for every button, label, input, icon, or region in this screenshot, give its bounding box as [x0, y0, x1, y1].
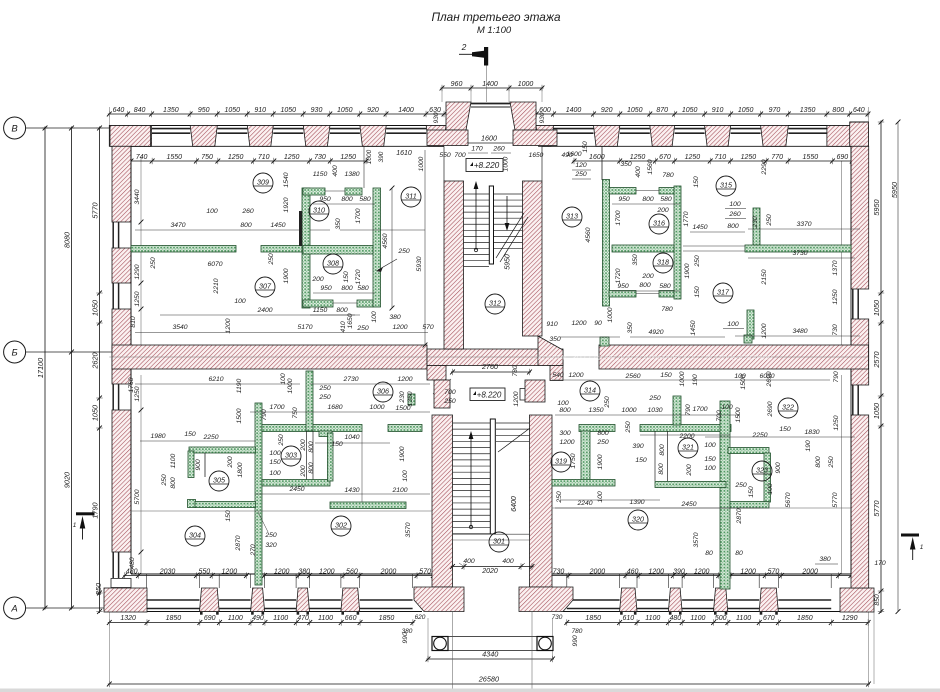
- svg-text:1050: 1050: [627, 107, 643, 114]
- middle wall axis line: [109, 356, 868, 358]
- right wall hatch seg 3: [851, 415, 869, 588]
- svg-text:2450: 2450: [680, 501, 696, 508]
- svg-text:2870: 2870: [736, 508, 743, 524]
- svg-text:780: 780: [512, 365, 519, 376]
- bottom window W9 glazing: [728, 599, 759, 601]
- svg-text:1980: 1980: [150, 433, 165, 440]
- right dim chain: [880, 121, 882, 614]
- svg-text:КОМПАС-3D LT (c) НЕ ДЛЯ КОММЕР: КОМПАС-3D LT (c) НЕ ДЛЯ КОММЕРЧЕСКОГО ИС…: [538, 353, 774, 362]
- left window dim chain: [99, 127, 101, 614]
- partition LR horizontal main b: [640, 425, 731, 432]
- svg-text:1900: 1900: [597, 454, 604, 469]
- svg-text:300: 300: [559, 430, 571, 437]
- svg-text:1680: 1680: [327, 404, 342, 411]
- top wall pier 4: [303, 126, 330, 147]
- stub green UR low: [747, 310, 754, 339]
- svg-text:1030: 1030: [647, 407, 662, 414]
- svg-text:2250: 2250: [202, 434, 218, 441]
- right wall hatch seg 1: [851, 146, 869, 289]
- top window W7 glazing: [620, 128, 650, 130]
- bottom wall pier 4: [341, 588, 360, 612]
- svg-text:1250: 1250: [630, 154, 646, 161]
- svg-text:1700: 1700: [615, 210, 622, 225]
- partition UR mid a: [612, 245, 674, 252]
- door label 700 right: [520, 389, 542, 401]
- svg-text:850: 850: [874, 594, 881, 606]
- svg-text:780: 780: [661, 306, 673, 313]
- svg-text:800: 800: [639, 282, 651, 289]
- svg-text:540: 540: [552, 372, 564, 379]
- left inner chain line upper: [140, 157, 142, 345]
- svg-text:309: 309: [257, 178, 269, 187]
- svg-text:250: 250: [648, 395, 661, 402]
- bottom inner dim row right: [547, 575, 721, 577]
- svg-text:80: 80: [705, 550, 713, 557]
- top window W6 glazing: [554, 128, 594, 130]
- svg-text:150: 150: [225, 510, 232, 522]
- LL small green stub: [408, 394, 415, 405]
- porch column stems: [452, 612, 454, 690]
- svg-text:А: А: [10, 603, 17, 614]
- svg-text:4560: 4560: [585, 227, 592, 242]
- stair door jamb right: [550, 366, 563, 381]
- svg-text:570: 570: [422, 324, 434, 331]
- svg-text:900: 900: [775, 462, 782, 474]
- svg-text:1560: 1560: [647, 159, 654, 174]
- svg-text:100: 100: [557, 400, 569, 407]
- partition LR room321 bottom: [655, 482, 726, 488]
- svg-text:8080: 8080: [63, 232, 72, 248]
- partition LL room303 bottom: [262, 480, 330, 487]
- svg-text:80: 80: [735, 550, 743, 557]
- svg-text:770: 770: [771, 154, 783, 161]
- svg-text:690: 690: [836, 154, 848, 161]
- svg-text:320: 320: [632, 515, 644, 524]
- svg-text:100: 100: [269, 470, 281, 477]
- svg-text:1040: 1040: [344, 434, 359, 441]
- upper stair up-arrow: [474, 248, 477, 251]
- svg-text:1200: 1200: [225, 318, 232, 333]
- partition UR vertical right: [674, 186, 681, 299]
- svg-text:1830: 1830: [804, 429, 819, 436]
- svg-text:5770: 5770: [872, 500, 881, 516]
- bottom wall outer face line: [109, 611, 422, 613]
- left wall hatch seg 4: [112, 410, 131, 552]
- top wall pier 8: [594, 126, 620, 147]
- svg-text:800: 800: [559, 407, 571, 414]
- svg-text:308: 308: [327, 259, 339, 268]
- svg-text:1000: 1000: [503, 156, 510, 171]
- room tag 308: [323, 254, 343, 274]
- lower stair cut lines: [498, 428, 530, 452]
- svg-text:2450: 2450: [288, 486, 304, 493]
- top window W9 glazing: [731, 128, 761, 130]
- svg-text:100: 100: [704, 465, 716, 472]
- svg-text:350: 350: [632, 254, 639, 266]
- svg-text:100: 100: [727, 321, 739, 328]
- UR leader underlines: [725, 208, 746, 210]
- svg-text:1700: 1700: [692, 406, 707, 413]
- bottom inner dim row left2: [263, 575, 435, 577]
- svg-text:2760: 2760: [481, 362, 498, 371]
- svg-text:1500: 1500: [236, 408, 243, 423]
- bottom outer dim row left: [108, 622, 415, 624]
- bottom wall sill marks: [200, 612, 203, 615]
- dim 17100 overall left: [44, 127, 46, 610]
- lower landing line: [453, 533, 530, 535]
- svg-text:790: 790: [685, 404, 692, 416]
- top inner dim row left: [130, 160, 368, 162]
- svg-text:1900: 1900: [283, 268, 290, 283]
- svg-text:311: 311: [405, 192, 416, 201]
- svg-text:306: 306: [377, 387, 389, 396]
- svg-text:90: 90: [594, 320, 602, 327]
- upper stairwell throat lines: [443, 146, 445, 181]
- svg-text:800: 800: [341, 285, 353, 292]
- LR dim lines: [552, 379, 830, 381]
- svg-text:250: 250: [596, 439, 609, 446]
- left window W1 glazing: [112, 222, 114, 248]
- svg-text:840: 840: [134, 107, 146, 114]
- svg-text:380: 380: [389, 314, 401, 321]
- partition UL horizontal a: [131, 246, 236, 253]
- room tag 307: [255, 277, 275, 297]
- svg-text:2290: 2290: [761, 159, 768, 175]
- svg-text:750: 750: [201, 154, 213, 161]
- svg-text:260: 260: [492, 146, 505, 153]
- svg-text:302: 302: [335, 521, 347, 530]
- svg-text:1720: 1720: [615, 268, 622, 283]
- svg-text:305: 305: [213, 476, 226, 485]
- room tag 301: [489, 532, 509, 552]
- svg-text:800: 800: [597, 430, 609, 437]
- stair landing dim 2760: [451, 371, 531, 373]
- svg-text:800: 800: [642, 196, 654, 203]
- svg-text:910: 910: [712, 107, 724, 114]
- left wall hatch seg 2: [112, 248, 131, 283]
- partition LL step: [319, 431, 332, 437]
- svg-text:1250: 1250: [741, 154, 757, 161]
- partition UL horizontal b: [261, 246, 305, 253]
- top window W1 glazing: [152, 128, 191, 130]
- LL dim lines: [135, 383, 300, 385]
- upper stair arrow right: [506, 196, 508, 228]
- bottom wall inner face line: [131, 573, 432, 575]
- room321 side lines: [654, 431, 656, 481]
- svg-text:100: 100: [269, 450, 281, 457]
- upper stair stringer: [489, 186, 493, 264]
- svg-text:950: 950: [320, 285, 332, 292]
- svg-text:9020: 9020: [63, 472, 72, 488]
- svg-text:410: 410: [340, 321, 347, 333]
- porch column right: [537, 637, 553, 651]
- svg-text:6070: 6070: [207, 261, 222, 268]
- svg-text:260: 260: [241, 208, 254, 215]
- partition UL vertical right: [373, 188, 381, 307]
- svg-text:1350: 1350: [800, 107, 816, 114]
- svg-text:1850: 1850: [166, 615, 182, 622]
- svg-text:318: 318: [657, 258, 669, 267]
- bottom wall pier 3: [296, 588, 309, 612]
- svg-text:1000: 1000: [369, 404, 384, 411]
- svg-text:1800: 1800: [237, 462, 244, 477]
- svg-text:1000: 1000: [366, 149, 373, 164]
- svg-text:1600: 1600: [566, 151, 581, 158]
- stub wall UL: [299, 211, 302, 246]
- svg-text:1050: 1050: [682, 107, 698, 114]
- svg-text:17100: 17100: [36, 358, 45, 378]
- svg-text:1200: 1200: [568, 372, 583, 379]
- room303 left lines: [306, 431, 308, 480]
- svg-text:Б: Б: [12, 347, 18, 358]
- svg-text:1250: 1250: [134, 386, 141, 401]
- svg-text:1050: 1050: [280, 107, 296, 114]
- left window W3 glazing: [112, 384, 114, 410]
- room tag 314: [580, 381, 600, 401]
- UR dim lines: [612, 203, 680, 205]
- svg-text:800: 800: [336, 307, 348, 314]
- bottom window W8 glazing: [682, 599, 713, 601]
- top wall pier 10: [705, 126, 731, 147]
- svg-text:250: 250: [734, 482, 747, 489]
- bottom window W2 glazing: [219, 599, 250, 601]
- LL interior line x362 low: [361, 431, 363, 502]
- UL dim line 4560: [391, 188, 393, 308]
- svg-text:730: 730: [314, 154, 326, 161]
- partition UR top b: [659, 188, 674, 195]
- svg-text:250: 250: [625, 421, 632, 434]
- top window W10 glazing: [788, 128, 827, 130]
- stair stub wall upper-right: [525, 380, 545, 402]
- svg-text:1770: 1770: [683, 211, 690, 226]
- room305 inner stub: [204, 453, 206, 477]
- svg-text:960: 960: [451, 81, 463, 88]
- svg-text:1250: 1250: [284, 154, 300, 161]
- svg-text:1700: 1700: [269, 404, 284, 411]
- svg-text:1050: 1050: [91, 405, 100, 421]
- svg-text:150: 150: [779, 426, 791, 433]
- partition UR vertical left: [603, 180, 610, 307]
- svg-text:640: 640: [853, 107, 865, 114]
- top wall inner face line: [131, 145, 444, 147]
- svg-text:2250: 2250: [751, 432, 767, 439]
- svg-text:950: 950: [319, 196, 331, 203]
- svg-text:950: 950: [198, 107, 210, 114]
- stair door jamb left: [427, 366, 446, 381]
- svg-text:1920: 1920: [283, 197, 290, 212]
- svg-text:1250: 1250: [833, 415, 840, 430]
- room tag 305: [209, 471, 229, 491]
- svg-text:400: 400: [463, 558, 475, 565]
- vestibule wall left: [427, 130, 468, 146]
- top wall pier 12: [827, 126, 869, 147]
- LR interior line y508: [552, 507, 851, 509]
- svg-text:1750: 1750: [570, 453, 577, 468]
- svg-text:315: 315: [720, 181, 733, 190]
- svg-text:1100: 1100: [273, 615, 288, 622]
- svg-text:2240: 2240: [576, 500, 592, 507]
- svg-text:480: 480: [669, 615, 681, 622]
- svg-text:1650: 1650: [347, 313, 354, 328]
- svg-text:1000: 1000: [518, 81, 534, 88]
- svg-text:120: 120: [575, 162, 587, 169]
- svg-text:800: 800: [815, 456, 822, 468]
- partition LL horizontal a: [262, 425, 362, 432]
- bottom window W1 glazing: [147, 599, 200, 601]
- svg-text:150: 150: [269, 459, 281, 466]
- partition UL top b: [345, 188, 362, 195]
- svg-text:4920: 4920: [648, 329, 663, 336]
- svg-text:200: 200: [686, 464, 693, 477]
- svg-text:1050: 1050: [224, 107, 240, 114]
- section marker 2 top: [486, 66, 488, 103]
- svg-text:303: 303: [285, 451, 297, 460]
- svg-text:3480: 3480: [792, 328, 807, 335]
- svg-text:730: 730: [832, 324, 839, 336]
- svg-text:250: 250: [556, 491, 563, 504]
- lower stair treads: [453, 422, 491, 424]
- svg-text:2: 2: [461, 42, 467, 52]
- svg-text:250: 250: [318, 385, 331, 392]
- svg-text:319: 319: [555, 457, 567, 466]
- room tag 317: [713, 283, 733, 303]
- svg-text:250: 250: [766, 214, 773, 227]
- bottom-right corner block: [840, 588, 874, 612]
- svg-text:План третьего этажа: План третьего этажа: [431, 10, 561, 24]
- room tag 309: [253, 173, 273, 193]
- top window W5 glazing: [386, 128, 426, 130]
- room305 bottom partition: [195, 502, 256, 508]
- svg-text:190: 190: [805, 440, 812, 452]
- room305 bottom corner: [188, 500, 196, 508]
- svg-text:2620: 2620: [91, 352, 100, 369]
- svg-text:1850: 1850: [797, 615, 813, 622]
- svg-text:321: 321: [682, 443, 694, 452]
- room tag 315: [716, 176, 736, 196]
- svg-text:1850: 1850: [585, 615, 601, 622]
- svg-text:1400: 1400: [482, 81, 498, 88]
- svg-text:930: 930: [433, 112, 440, 123]
- svg-text:4560: 4560: [382, 233, 389, 248]
- porch width dim 4340: [427, 658, 555, 660]
- svg-text:250: 250: [694, 255, 701, 268]
- left inner chain line lower: [140, 375, 142, 574]
- svg-text:1050: 1050: [738, 107, 754, 114]
- top-right corner block: [850, 122, 869, 146]
- upper stairwell wall left: [444, 181, 464, 349]
- bottom window W4 glazing: [310, 599, 341, 601]
- lower stair up-arrow: [469, 525, 472, 528]
- door swing line: [433, 379, 451, 394]
- svg-text:1100: 1100: [645, 615, 660, 622]
- svg-text:400: 400: [332, 165, 339, 177]
- bottom outer dim row right: [565, 622, 869, 624]
- upper stairwell wall right: [523, 181, 543, 336]
- right window W2 glazing: [852, 385, 854, 415]
- top wall pier 6: [426, 126, 446, 147]
- partition LR vert up stub: [673, 396, 681, 425]
- room tag 321: [678, 438, 698, 458]
- svg-text:1100: 1100: [228, 615, 243, 622]
- LL interior line y511: [131, 510, 432, 512]
- room tag 304: [185, 526, 205, 546]
- svg-text:100: 100: [206, 208, 218, 215]
- svg-text:150: 150: [694, 286, 701, 298]
- svg-text:350: 350: [335, 218, 342, 230]
- svg-text:950: 950: [618, 196, 630, 203]
- svg-text:950: 950: [617, 283, 629, 290]
- svg-text:970: 970: [769, 107, 781, 114]
- svg-text:500: 500: [715, 615, 727, 622]
- svg-text:6400: 6400: [511, 496, 518, 512]
- svg-text:1290: 1290: [842, 615, 858, 622]
- svg-text:900: 900: [195, 459, 202, 471]
- porch column left: [432, 637, 448, 651]
- svg-text:1100: 1100: [736, 615, 751, 622]
- partition LL horizontal low: [330, 502, 406, 509]
- svg-text:800: 800: [658, 463, 665, 475]
- svg-text:780: 780: [572, 628, 583, 635]
- partition UL mid: [303, 246, 373, 255]
- svg-text:2870: 2870: [235, 535, 242, 551]
- svg-text:1200: 1200: [392, 324, 407, 331]
- svg-text:5700: 5700: [134, 489, 141, 504]
- svg-text:5670: 5670: [785, 492, 792, 507]
- svg-text:6030: 6030: [759, 373, 774, 380]
- svg-text:550: 550: [439, 152, 451, 159]
- bottom-left wall notch: [111, 579, 131, 588]
- svg-text:1900: 1900: [684, 263, 691, 278]
- svg-text:250: 250: [150, 257, 157, 270]
- svg-text:150: 150: [704, 456, 716, 463]
- bottom inner dim row right2: [730, 575, 853, 577]
- partition LR room323 top: [728, 448, 769, 454]
- svg-text:1000: 1000: [679, 371, 686, 386]
- svg-text:307: 307: [259, 282, 272, 291]
- svg-text:1320: 1320: [120, 615, 136, 622]
- bottom window W10 glazing: [778, 599, 831, 601]
- partition LR vertical long: [720, 401, 730, 589]
- top outer dim row left: [108, 113, 446, 115]
- svg-text:1550: 1550: [803, 154, 819, 161]
- svg-text:200: 200: [311, 276, 324, 283]
- partition UL top a: [303, 188, 325, 195]
- svg-text:990: 990: [572, 635, 579, 647]
- svg-text:150: 150: [693, 176, 700, 188]
- bottom wall pier 5: [620, 588, 637, 612]
- bottom window W7 glazing: [637, 599, 668, 601]
- svg-text:910: 910: [254, 107, 266, 114]
- svg-text:1050: 1050: [91, 300, 100, 316]
- svg-text:304: 304: [189, 531, 201, 540]
- overall dim 26580: [108, 683, 870, 685]
- svg-text:1150: 1150: [313, 171, 328, 178]
- partition UR bottom a: [609, 291, 636, 298]
- svg-text:810: 810: [130, 316, 137, 328]
- svg-text:670: 670: [659, 154, 671, 161]
- left wall inner face: [130, 146, 132, 574]
- partition UR top a: [609, 188, 636, 195]
- svg-text:150: 150: [748, 486, 755, 498]
- svg-text:2100: 2100: [391, 487, 407, 494]
- svg-text:150: 150: [343, 271, 350, 283]
- svg-text:390: 390: [378, 151, 385, 162]
- bottom window W6 glazing: [567, 599, 620, 601]
- svg-text:2560: 2560: [624, 373, 640, 380]
- svg-text:3440: 3440: [134, 189, 141, 204]
- left wall hatch seg 1: [112, 146, 131, 222]
- svg-text:100: 100: [704, 442, 716, 449]
